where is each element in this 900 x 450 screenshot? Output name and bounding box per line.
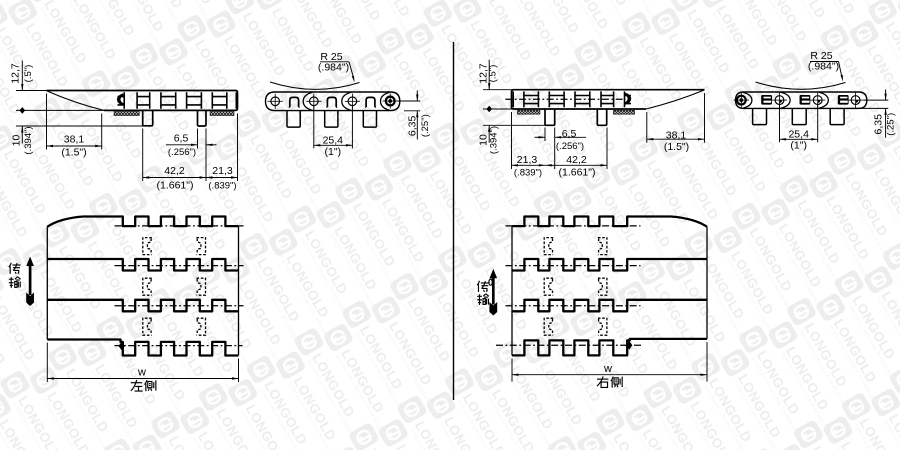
left top view: bottom edge with teeth [47,340,238,356]
right side view: hinge pin crescent [625,93,632,105]
left top view: W width dimension [46,343,48,383]
left top view: knuckle mark row 2 left [143,278,152,295]
right dimension 6.5 (.256in) [544,128,546,142]
svg-text:(.5"): (.5") [488,65,499,83]
left top view: top edge with teeth and corner curve [47,217,238,227]
right dimension 38.1 (1.5in) [646,112,648,143]
left top view: hinge dash-dot row 2 [115,265,244,267]
right side view: link mid bars [524,96,631,104]
right end view: R25 leader with arrow [839,62,843,78]
left top view: hinge end diamond [119,342,125,351]
left end view: retainer slot 1 (inverted U) [290,97,299,107]
svg-text:21,3: 21,3 [517,154,538,166]
svg-text:(1.5"): (1.5") [61,147,86,159]
right top view: module boundary 2 teeth [512,300,707,312]
left top view: knuckle mark row 2 right [197,278,206,295]
right top view: hinge dash-dot row 1 [506,225,641,227]
right end view: leg 1 [753,108,767,124]
svg-text:21,3: 21,3 [212,165,233,177]
right end view: retainer slot 1 (slotted block) [761,95,772,105]
right end view: leg 2 [792,108,806,124]
left end view: link cap joint 3 [381,92,390,110]
right end view: link cap joint 1 [743,92,752,108]
svg-text:(1.661"): (1.661") [559,167,596,179]
right end view: hinge hole circle 2 [813,96,822,105]
svg-text:(.984"): (.984") [318,62,349,74]
left end view: leg 1 [287,111,300,128]
right top view: knuckle mark row 1 left [544,238,553,255]
left top view: transport direction arrow [26,257,34,267]
right top view: label youce (right side) [597,378,608,380]
svg-text:(1"): (1") [325,146,342,158]
dimension 6.5 (.256in) [197,129,199,149]
right dimension 25.4 (1in) [779,105,781,142]
right end view: hinge hole circle 3 [851,96,860,105]
left side view: wear pad hatch left [114,112,139,116]
left side view: leg 2 [198,111,207,126]
left top view: left edge [46,227,48,340]
right top view: knuckle mark row 3 left [544,318,553,335]
right side view: datum diamond [486,106,492,113]
svg-text:6,5: 6,5 [562,128,577,140]
dimension 6.35 (.25in) [398,100,421,102]
right side view: wear pad hatch left [517,110,540,114]
left end view: hinge hole circle 1 [271,97,280,106]
right end view: link cap joint 2 [781,92,790,108]
left end view: R25 leader with arrow [349,62,354,78]
left side view: hinge pin crescent [117,93,124,105]
right end view: retainer slot 3 (slotted block) [838,95,849,105]
dimension 25.4 (1in) [313,107,315,149]
right top view: hinge dash-dot row 3 [506,305,641,307]
left top view: hinge dash-dot row 3 [115,305,244,307]
svg-text:42,2: 42,2 [164,165,185,177]
svg-text:(.839"): (.839") [208,180,236,191]
right top view: bottom edge with teeth [512,339,707,356]
right top view: bottom hinge dash-dot [496,344,641,346]
svg-text:6,35: 6,35 [407,116,419,137]
dimension 38.1 (1.5in) [46,94,48,150]
right side view: leg 1 [545,109,555,125]
svg-text:(.25"): (.25") [886,113,897,136]
left end view: leg 2 [325,111,338,128]
right end view: pin end circle (solid) [737,96,746,105]
svg-text:38,1: 38,1 [64,134,85,146]
left top view: bottom hinge dash-dot [115,345,243,347]
svg-text:25,4: 25,4 [323,135,344,147]
dimension 12.7 (.5in) [16,90,47,92]
dimension 21.3 (.839in) [237,114,239,182]
svg-text:12,7: 12,7 [10,63,22,84]
svg-text:6,5: 6,5 [174,133,189,145]
right side view: leg 2 [597,109,606,125]
right end view: hinge hole circle 1 [775,96,784,105]
dimension 10 (.394in) [16,125,153,127]
right side view: wear pad hatch right [613,110,634,114]
right top view: top edge with teeth and corner curve [512,217,707,227]
right end view: R25 flex arc [756,82,846,89]
left end view: retainer slot 3 (inverted U) [366,97,375,107]
svg-text:(1"): (1") [790,139,807,151]
right dimension 42.2 (1.661in) [545,164,607,166]
svg-text:w: w [137,367,146,379]
left side view: link cell verticals [124,92,236,109]
right top view: knuckle mark row 2 right [598,278,607,295]
left side view: wear pad hatch right [210,112,234,116]
right top view: knuckle mark row 3 right [598,318,607,335]
right dimension 21.3 (.839in) [511,112,513,169]
left end view: link cap joint 2 [342,92,351,110]
left side view: leg 1 [143,111,153,126]
svg-text:w: w [603,363,612,375]
left top view: hinge dash-dot row 1 [115,225,244,227]
right side view: datum line [483,108,512,110]
right end view: retainer slot 2 (slotted block) [800,95,811,105]
right side view: plate outline [512,90,705,109]
left top view: knuckle mark row 3 right [197,318,206,335]
left end view: hinge hole circle 2 [310,97,319,106]
right dimension 12.7 (.5in) [483,89,512,91]
left top view: knuckle mark row 1 right [197,238,206,255]
right top view: transport direction arrow [490,269,498,279]
svg-text:38,1: 38,1 [666,129,687,141]
svg-text:(.256"): (.256") [556,141,584,152]
right top view: knuckle mark row 1 right [598,238,607,255]
left end view: link cap joint 1 [303,92,312,110]
right side view: lead-out taper curve [646,90,705,109]
left top view: label zuoce (left side) [131,382,142,384]
right dimension 6.35 (.25in) [863,99,888,101]
right top view: left edge [511,226,513,355]
left end view: link band pill outline [266,92,400,111]
dimension 42.2 (1.661in) [142,129,144,182]
left end view: leg 3 [363,111,376,128]
right dimension 10 (.394in) [483,124,555,126]
right top view: chuanshu (transport) label [477,281,479,285]
left side view: datum line [16,109,104,111]
right side view: pitch dash-dot centerline [505,98,625,100]
left end view: retainer slot 2 (inverted U) [327,97,336,107]
svg-text:(.394"): (.394") [488,126,499,154]
left side view: plate outline (top edge, right edge, bottom edge) [47,91,238,111]
left side view: link mid bars [118,97,227,105]
left top view: module boundary 1 teeth [47,259,238,271]
right top view: hinge dash-dot row 2 [506,265,641,267]
left top view: right edge [238,226,240,355]
center divider line [453,42,455,400]
svg-text:6,35: 6,35 [873,114,885,135]
svg-text:(.839"): (.839") [514,168,542,179]
left side view: lead-in taper curve [47,91,105,111]
right top view: hinge end diamond [626,341,632,350]
svg-text:(.256"): (.256") [168,147,196,158]
left top view: module boundary 2 teeth [47,300,238,312]
svg-text:(1.661"): (1.661") [157,179,194,191]
right side view: link cell verticals [513,91,624,107]
right end view: leg 3 [830,108,844,124]
left top view: knuckle mark row 1 left [143,238,152,255]
left end view: R25 flex arc [270,82,360,89]
right end view: link cap joint 3 [819,92,828,108]
left side view: datum diamond [19,107,25,114]
left top view: knuckle mark row 3 left [143,318,152,335]
right top view: right edge [706,227,708,339]
left end view: pin end circle (solid) [386,97,395,106]
left top view: chuanshu (transport) label [9,263,11,267]
svg-text:(.25"): (.25") [420,114,431,137]
svg-text:(.5"): (.5") [23,65,34,83]
right top view: W width dimension [511,358,513,381]
right top view: module boundary 1 teeth [512,259,707,271]
svg-text:42,2: 42,2 [566,154,587,166]
left end view: hinge hole circle 3 [348,97,357,106]
svg-text:(1.5"): (1.5") [664,141,689,153]
right end view: link band pill outline [736,92,867,108]
right top view: knuckle mark row 2 left [544,278,553,295]
svg-text:(.984"): (.984") [808,61,839,73]
svg-text:10: 10 [11,135,23,147]
svg-text:(.394"): (.394") [23,126,34,154]
